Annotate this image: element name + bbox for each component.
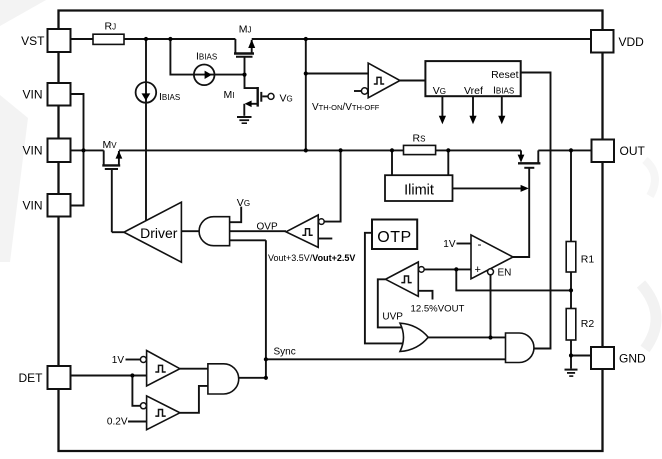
- svg-text:-: -: [478, 237, 482, 251]
- svg-text:1V: 1V: [112, 355, 125, 366]
- svg-text:Vout+3.5V/Vout+2.5V: Vout+3.5V/Vout+2.5V: [268, 253, 355, 263]
- svg-text:MV: MV: [103, 139, 118, 151]
- svg-text:VG: VG: [237, 197, 250, 209]
- svg-text:RS: RS: [413, 133, 426, 145]
- svg-text:VST: VST: [21, 34, 45, 48]
- svg-text:Ilimit: Ilimit: [404, 183, 434, 199]
- svg-text:MI: MI: [224, 89, 235, 101]
- svg-text:IBIAS: IBIAS: [493, 85, 514, 97]
- svg-text:VIN: VIN: [22, 144, 42, 158]
- svg-text:IBIAS: IBIAS: [159, 91, 180, 103]
- svg-text:VG: VG: [433, 85, 446, 97]
- svg-text:OUT: OUT: [620, 144, 646, 158]
- svg-text:R2: R2: [581, 318, 595, 330]
- svg-text:VDD: VDD: [619, 35, 645, 49]
- svg-text:DET: DET: [19, 371, 44, 385]
- svg-text:OTP: OTP: [377, 229, 411, 246]
- svg-text:GND: GND: [619, 352, 646, 366]
- svg-text:RJ: RJ: [105, 21, 117, 33]
- svg-text:OVP: OVP: [257, 222, 278, 233]
- svg-text:IBIAS: IBIAS: [196, 50, 217, 62]
- svg-text:R1: R1: [581, 254, 595, 266]
- svg-text:12.5%VOUT: 12.5%VOUT: [411, 304, 465, 315]
- svg-text:0.2V: 0.2V: [107, 417, 128, 428]
- svg-text:EN: EN: [498, 268, 512, 279]
- svg-text:VTH-ON/VTH-OFF: VTH-ON/VTH-OFF: [312, 102, 380, 113]
- svg-text:Reset: Reset: [491, 69, 519, 81]
- svg-text:MJ: MJ: [239, 24, 252, 36]
- svg-text:1V: 1V: [443, 239, 456, 250]
- svg-text:Sync: Sync: [274, 347, 296, 358]
- svg-text:VG: VG: [280, 93, 293, 105]
- svg-text:UVP: UVP: [382, 312, 403, 323]
- svg-text:Driver: Driver: [140, 225, 178, 241]
- svg-text:+: +: [475, 264, 481, 276]
- svg-text:VIN: VIN: [22, 199, 42, 213]
- svg-text:VIN: VIN: [22, 88, 42, 102]
- svg-text:Vref: Vref: [464, 85, 483, 97]
